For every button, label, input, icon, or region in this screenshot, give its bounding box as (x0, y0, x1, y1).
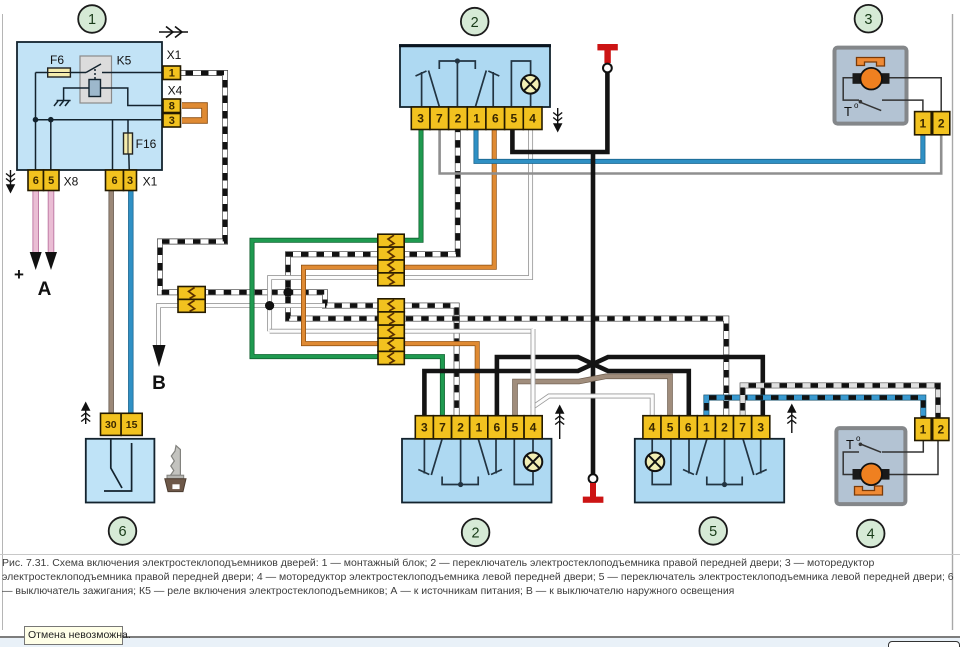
circled 6 (109, 517, 137, 545)
ignition switch body (86, 439, 155, 503)
svg-text:2: 2 (457, 421, 464, 435)
wire blue-dashed pin1R to motor4 pin1 (706, 398, 923, 419)
junction dot block1 bus tap X8-5 (48, 117, 54, 123)
wire dashed ignition-feed from X1 pin1 (160, 73, 457, 415)
svg-text:4: 4 (529, 112, 536, 126)
switch block 2 top edge (399, 44, 551, 47)
svg-text:A: A (38, 279, 52, 300)
svg-text:X1: X1 (167, 48, 182, 62)
svg-text:6: 6 (33, 175, 39, 187)
connector X1 pins 6,3 bottom (106, 170, 137, 191)
motor 4 wiring (843, 441, 938, 475)
svg-text:6: 6 (118, 524, 126, 540)
svg-text:6: 6 (111, 175, 117, 187)
arrow A pink wire 1 (30, 252, 42, 270)
connector X4 pin8 (163, 99, 181, 113)
svg-text:3: 3 (757, 421, 764, 435)
relay K5 box (80, 56, 112, 103)
wire dashed branch to top switch pin2 (288, 130, 458, 292)
svg-text:5: 5 (512, 421, 519, 435)
junction dot dashed feed (283, 288, 292, 297)
svg-text:3: 3 (127, 175, 133, 187)
double arrow symbol (159, 27, 188, 38)
wire orange top pin6 to bottom-left pin1 (304, 130, 495, 415)
wire white to B arrow (159, 306, 326, 345)
switch 2 pins 3,7,2,1,6,5,4 (411, 107, 542, 130)
svg-text:6: 6 (685, 421, 692, 435)
wire black vertical to bottom ground (591, 152, 596, 474)
switch 5 internal contacts (652, 439, 767, 485)
lamp in switch 2 (521, 75, 540, 94)
wire block1 F6 feed (36, 72, 85, 74)
svg-text:1: 1 (88, 12, 96, 28)
svg-text:5: 5 (667, 421, 674, 435)
motor 4 connector pins 1,2 (915, 418, 949, 441)
svg-text:5: 5 (48, 175, 54, 187)
key icon (165, 446, 186, 492)
svg-text:8: 8 (169, 101, 175, 113)
inline connector lower (5 cells) (378, 299, 404, 365)
ignition internal contacts (104, 439, 132, 491)
svg-text:B: B (152, 373, 166, 394)
svg-text:3: 3 (417, 112, 424, 126)
wire block1 to X1 pin6 (112, 120, 114, 190)
svg-text:1: 1 (920, 423, 927, 437)
svg-text:6: 6 (492, 112, 499, 126)
motor 4 switch pivot (859, 443, 863, 447)
fuse F16 (124, 133, 133, 154)
chassis ground right of switch 5 (787, 405, 796, 433)
svg-text:2: 2 (471, 15, 479, 31)
svg-text:T: T (844, 104, 852, 119)
window right border (952, 14, 954, 630)
motor 4 bracket (855, 486, 883, 495)
svg-text:4: 4 (867, 527, 875, 543)
circled 3 (855, 5, 883, 33)
svg-text:F6: F6 (50, 53, 64, 67)
circled 5 (699, 517, 727, 545)
wire pink X8-5 to +A (48, 190, 55, 253)
wire block1 bus horizontal (36, 119, 164, 121)
svg-text:4: 4 (649, 421, 656, 435)
svg-text:3: 3 (169, 115, 175, 127)
motor 4 rotor (860, 464, 882, 486)
wire pink X8-6 to +A (32, 190, 39, 253)
switch 2b internal contacts (418, 439, 533, 485)
connector X4 pin3 (163, 114, 181, 128)
motor 3 rotor (860, 68, 882, 90)
wire black bottom pin6L to pin6R (X cross) (497, 357, 689, 415)
motor 3 bracket (857, 58, 885, 67)
svg-text:15: 15 (126, 419, 138, 431)
wire white bottom pin4L to pin4R (533, 396, 652, 415)
switch block 2 body (400, 45, 550, 107)
svg-text:3: 3 (421, 421, 428, 435)
svg-text:F16: F16 (136, 137, 157, 151)
wire white from top switch pin4 to junction (270, 130, 531, 331)
svg-text:4: 4 (530, 421, 537, 435)
svg-text:T: T (846, 437, 854, 452)
caption text (2, 556, 954, 599)
relay K5 coil (89, 80, 101, 97)
motor block 4 body (836, 428, 905, 504)
switch 2b pins 3,7,2,1,6,5,4 (415, 416, 542, 439)
svg-text:1: 1 (473, 112, 480, 126)
wire blue block1 to ignition pin15 (128, 190, 133, 414)
inline connector upper (4 cells) (378, 234, 404, 285)
tooltip box (24, 626, 123, 645)
svg-text:7: 7 (436, 112, 443, 126)
wire brown bottom pin5L to pin5R (515, 376, 670, 415)
wire block1 bus vertical pin X8-6 (35, 73, 37, 191)
chassis ground right of switch2 (553, 108, 562, 131)
svg-text:K5: K5 (117, 54, 132, 68)
wire dashed branch long to right switch pin2 (288, 292, 726, 415)
svg-text:2: 2 (938, 117, 945, 131)
svg-text:2: 2 (721, 421, 728, 435)
svg-text:2: 2 (472, 526, 480, 542)
svg-text:2: 2 (455, 112, 462, 126)
circled 2 top (461, 8, 489, 36)
ground symbol inside block1 (54, 101, 71, 107)
node circle at T terminal (603, 64, 612, 73)
junction dot block1 bus tap X8-6 (33, 117, 39, 123)
chassis ground left of ignition (81, 403, 90, 424)
mounting block 1 body (17, 42, 162, 170)
svg-text:5: 5 (511, 112, 518, 126)
circled 2 bottom (462, 519, 490, 547)
lamp in switch 5 (646, 453, 665, 472)
motor 4 brushes (853, 469, 890, 480)
svg-text:5: 5 (709, 524, 717, 540)
wire relay coil to X4 pin8 (101, 88, 164, 106)
switch 5 pins 4,5,6,1,2,7,3 (643, 416, 770, 439)
chassis ground right of switch 2b (555, 406, 564, 439)
ignition pins 30,15 (101, 413, 143, 435)
wire brown block1 to ignition pin30 (108, 190, 113, 414)
svg-text:X1: X1 (143, 175, 158, 189)
motor block 3 body (835, 48, 907, 124)
switch block 2b body (402, 439, 552, 503)
svg-text:2: 2 (937, 423, 944, 437)
motor 3 connector pins 1,2 (915, 112, 950, 135)
inline connector small (2 cells) (178, 287, 205, 313)
switch block 5 body (635, 439, 784, 503)
button bottom right (888, 641, 960, 647)
svg-text:X4: X4 (168, 84, 183, 98)
wire green top pin3 to bottom pin7 (252, 130, 442, 415)
jumper orange X4 8-3 (182, 106, 205, 121)
wire block1 bus vertical pin X8-5 (50, 120, 52, 190)
connector X1 pin1 (163, 66, 181, 80)
wire white lower connector row3 (270, 329, 533, 334)
wire black top pin5 to T terminal (512, 72, 607, 152)
wire grey-dashed pin7R to motor4 pin2 (743, 385, 938, 419)
circled 1 (78, 5, 106, 33)
svg-text:X8: X8 (64, 175, 79, 189)
chassis ground left of X8 (6, 170, 15, 192)
wire black bottom pin3L to pin3R (X cross) (424, 357, 762, 415)
svg-text:7: 7 (439, 421, 446, 435)
svg-text:7: 7 (739, 421, 746, 435)
wire grey top pin7 to motor3 pin2 (440, 130, 942, 174)
svg-text:+: + (14, 265, 24, 284)
wire relay coil to ground (64, 88, 89, 100)
ground red terminal (583, 483, 604, 503)
wire blue top pin1 to motor3 pin1 (476, 130, 923, 161)
switch 2 internal contacts (416, 61, 531, 107)
svg-text:6: 6 (494, 421, 501, 435)
svg-text:1: 1 (703, 421, 710, 435)
node circle at bottom ground (589, 474, 598, 483)
svg-text:3: 3 (864, 12, 872, 28)
svg-text:1: 1 (169, 68, 175, 80)
wire white pin4L vertical upper part (531, 329, 536, 408)
wire block1 F16 to X1 pin3 (128, 120, 130, 190)
motor 3 switch pivot (859, 100, 863, 104)
svg-text:o: o (856, 434, 861, 443)
motor 3 wiring (843, 78, 941, 112)
svg-text:o: o (854, 101, 859, 110)
svg-text:1: 1 (920, 117, 927, 131)
svg-text:30: 30 (105, 419, 117, 431)
relay K5 contact (84, 64, 163, 79)
motor 3 brushes (853, 73, 890, 84)
arrow A pink wire 2 (45, 252, 57, 270)
lamp in switch 2b (524, 453, 543, 472)
arrow B (153, 345, 166, 367)
connector X8 pins 6,5 (28, 170, 59, 191)
fuse F6 (48, 68, 71, 77)
terminal T red (power) (597, 44, 617, 63)
window left border (2, 14, 4, 630)
svg-text:1: 1 (475, 421, 482, 435)
circled 4 (857, 520, 885, 548)
junction dot white wires (265, 301, 274, 310)
